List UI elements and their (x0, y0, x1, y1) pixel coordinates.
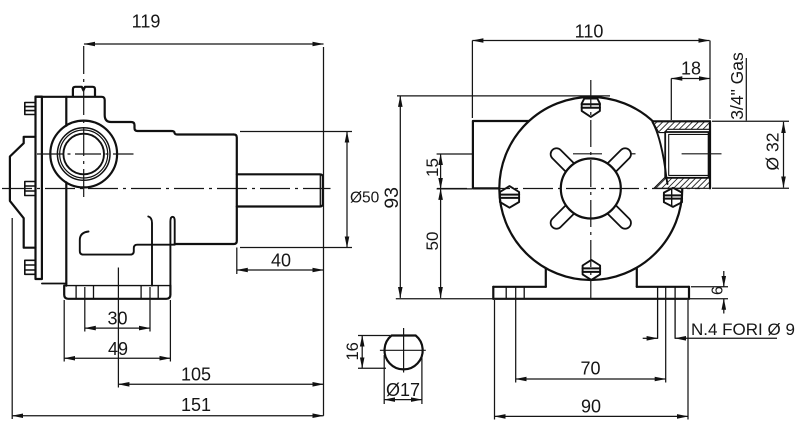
16 bottom extension (358, 367, 386, 369)
svg-text:50: 50 (423, 232, 442, 251)
rear cover plate (10, 137, 36, 248)
vertical centerline (590, 80, 592, 298)
base bolt hole lines left (506, 287, 675, 339)
svg-text:3/4" Gas: 3/4" Gas (727, 52, 747, 120)
dim 105 line (118, 383, 323, 385)
dim 90 line (495, 415, 689, 417)
base plate left top edge (493, 286, 546, 288)
bearing ring 2 (60, 130, 108, 178)
impeller spoke SW (557, 206, 574, 223)
long right extension line (323, 47, 325, 416)
dim 119 line (84, 43, 324, 45)
svg-text:40: 40 (271, 251, 291, 271)
port right face (709, 121, 711, 188)
foot stem left (545, 268, 547, 287)
3/4 gas leader line (745, 58, 747, 121)
svg-text:30: 30 (107, 309, 127, 329)
svg-text:151: 151 (181, 395, 211, 415)
bell rear edge double line (170, 217, 174, 286)
base bottom edge (493, 298, 689, 300)
foot hole lines (76, 286, 158, 299)
port top hatched band (653, 122, 710, 133)
dim 15 line (440, 154, 442, 189)
dim D17 line (384, 399, 422, 401)
dim D32 line (783, 122, 785, 188)
svg-text:90: 90 (581, 397, 601, 417)
bearing vertical centerline (83, 46, 85, 199)
svg-text:6: 6 (709, 286, 726, 295)
D17 extensions (383, 355, 385, 404)
15 bottom extension (437, 188, 472, 190)
svg-text:93: 93 (381, 187, 403, 209)
port bore thread lines (669, 134, 709, 175)
screw top (hex with slot) (582, 99, 600, 117)
D32 bottom extension (712, 187, 789, 189)
dim 6 arrows (723, 271, 725, 287)
dimension texts right view (381, 22, 795, 417)
svg-text:15: 15 (423, 158, 442, 177)
svg-text:18: 18 (681, 59, 701, 79)
svg-text:N.4 FORI Ø 9: N.4 FORI Ø 9 (691, 320, 795, 339)
svg-text:Ø50: Ø50 (350, 190, 380, 207)
shaft section circle with flat (384, 336, 422, 370)
main shaft centerline (2, 188, 331, 190)
svg-text:119: 119 (132, 12, 161, 32)
dim 40 left extension (236, 248, 238, 275)
15 top extension (437, 153, 472, 155)
pump front cover big circle (499, 97, 682, 280)
port boss left curve (653, 122, 668, 184)
dim 18 line (671, 78, 710, 80)
svg-text:Ø17: Ø17 (386, 380, 420, 400)
port white mask (650, 121, 710, 188)
svg-text:49: 49 (108, 339, 128, 359)
shaft (237, 174, 323, 206)
interior hook line left (80, 232, 175, 255)
port bottom hatched band (654, 178, 710, 189)
svg-text:110: 110 (575, 22, 604, 42)
16 top extension (358, 335, 390, 337)
110/18 right extension (709, 41, 711, 120)
dim 6 extension top (691, 286, 728, 288)
body left edge (lower) (65, 182, 67, 285)
49 extensions (63, 300, 65, 362)
D32 top extension (712, 120, 789, 122)
interior hook line middle (148, 217, 152, 286)
dim D50 vertical line (346, 132, 348, 248)
rear flange plate (36, 97, 42, 279)
flange screw bottom (25, 260, 36, 274)
impeller hub circle (561, 159, 621, 219)
port bore rectangle (665, 132, 708, 178)
18 left extension (670, 79, 672, 121)
screw bottom (583, 260, 601, 280)
105 left extension (117, 268, 119, 388)
ground line (396, 298, 728, 300)
bearing boss outer circle (50, 121, 117, 188)
flange screw top (25, 103, 36, 115)
section horizontal centerline (380, 349, 426, 351)
dim 16 line (361, 336, 363, 369)
dim 30 line (85, 327, 150, 329)
front bell front edge (175, 135, 237, 245)
screw left (500, 186, 519, 208)
30 extensions (84, 287, 86, 332)
D50 top extension (240, 131, 352, 133)
110 left extension (471, 41, 473, 119)
dim 40 line (237, 269, 324, 271)
body bottom edge to flange (42, 283, 66, 285)
base left edge (492, 287, 494, 299)
bearing ring 1 (57, 128, 110, 181)
base right edge (688, 287, 690, 299)
horizontal centerline (437, 188, 700, 190)
svg-text:70: 70 (580, 359, 600, 379)
svg-text:105: 105 (181, 365, 211, 385)
impeller spoke NE (608, 154, 625, 171)
dimension texts left view (107, 12, 379, 416)
port top outer edge (652, 120, 710, 122)
base plate right top edge (637, 286, 689, 288)
foot base top edge (64, 285, 170, 287)
screw right (664, 188, 682, 207)
svg-text:16: 16 (344, 342, 362, 360)
body rectangle behind circle (473, 121, 529, 188)
D50 bottom extension (240, 247, 352, 249)
dim 49 line (64, 357, 170, 359)
dim 93 line (399, 96, 401, 298)
dim 110 line (472, 40, 709, 42)
bearing horizontal centerline (37, 153, 134, 155)
section vertical centerline (403, 328, 405, 373)
port horizontal centerline (573, 153, 602, 155)
dim 70 line (516, 378, 666, 380)
bearing bore circle (63, 134, 104, 175)
flange screw middle (25, 182, 36, 196)
dim 151 line (12, 415, 323, 417)
shaft chamfer line (319, 174, 321, 206)
151 left extension (11, 218, 13, 419)
foot stem right (636, 268, 638, 287)
93 top extension (397, 95, 610, 97)
priming screw head on top (73, 87, 95, 97)
foot base plate (64, 286, 170, 299)
extensions below base (515, 287, 517, 383)
svg-text:Ø 32: Ø 32 (763, 133, 783, 171)
body top profile with steps (36, 97, 234, 135)
dim 50 line (440, 189, 442, 298)
N4 FORI leader and arrows (643, 337, 658, 339)
impeller spoke NW (557, 154, 574, 171)
impeller spoke SE (608, 206, 625, 223)
body left edge (upper) (65, 97, 67, 126)
